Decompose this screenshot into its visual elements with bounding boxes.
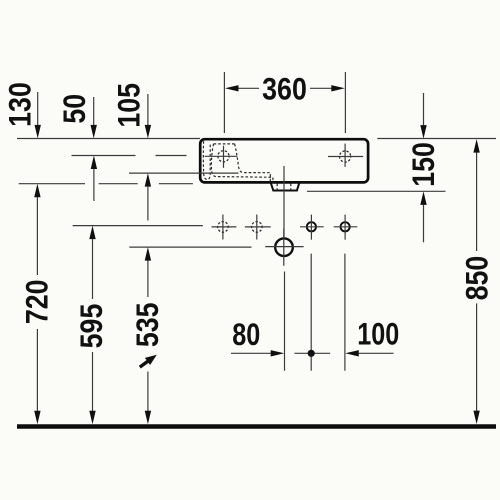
130 reference line (basin underside level) bbox=[19, 183, 193, 185]
mounting direction arrow (north-east) bbox=[137, 351, 159, 370]
hole C extension line down bbox=[310, 254, 312, 371]
wall top reference line bbox=[17, 138, 496, 140]
hole C crosshair bbox=[300, 215, 324, 240]
svg-text:150: 150 bbox=[407, 142, 441, 187]
150 reference line bbox=[307, 190, 446, 192]
dim 535 arrow down to floor bbox=[147, 372, 149, 413]
dim 595 arrow down to floor bbox=[92, 352, 94, 412]
svg-text:850: 850 bbox=[461, 256, 495, 301]
mounting hole D solid bbox=[341, 222, 350, 231]
washbasin outline bbox=[200, 139, 368, 182]
drain extension line down bbox=[284, 272, 286, 371]
dim 80 pointer bbox=[231, 352, 271, 354]
595 reference line bbox=[73, 225, 203, 227]
svg-text:50: 50 bbox=[58, 94, 92, 124]
reference dot bbox=[308, 350, 315, 357]
535 reference line bbox=[129, 246, 251, 248]
svg-text:360: 360 bbox=[262, 72, 307, 106]
bowl outline dashed top bbox=[214, 143, 235, 145]
svg-text:130: 130 bbox=[3, 82, 37, 127]
hole D crosshair bbox=[334, 215, 358, 240]
floor line bbox=[17, 424, 496, 429]
drain centerline vertical bbox=[283, 166, 285, 266]
hole D extension line down bbox=[344, 254, 346, 371]
faucet hole right crosshair bbox=[328, 144, 363, 167]
dim 130 arrow down bbox=[37, 92, 39, 126]
dim 105 arrow up at line bbox=[145, 173, 151, 187]
dim 100 pointer bbox=[345, 350, 359, 356]
basin front wall section (dashed U) bbox=[203, 141, 210, 179]
dim 720 arrow down to floor bbox=[36, 329, 38, 412]
mounting hole A dashed bbox=[218, 222, 229, 233]
svg-text:535: 535 bbox=[131, 302, 165, 347]
faucet hole left crosshair bbox=[205, 146, 238, 168]
mounting hole C solid bbox=[307, 222, 316, 231]
svg-text:80: 80 bbox=[232, 317, 260, 352]
hole B crosshair bbox=[245, 215, 271, 240]
shared reference segment with dot bbox=[294, 352, 330, 354]
dim 535 arrow up bbox=[145, 247, 151, 261]
dim 720 arrow up bbox=[34, 184, 40, 198]
dim 150 arrow down bbox=[423, 93, 425, 126]
faucet hole right (dashed circle) bbox=[340, 151, 351, 162]
dim 50 arrow down bbox=[93, 97, 95, 126]
mounting hole B dashed bbox=[251, 222, 262, 233]
dim 105 arrow down bbox=[147, 94, 149, 126]
bowl right wall + shelf dashed bbox=[235, 144, 271, 183]
dim 595 arrow up bbox=[89, 226, 95, 240]
bowl left wall + bottom dashed bbox=[211, 144, 273, 183]
drain spigot tab bbox=[271, 183, 299, 190]
drain crosshair horizontal bbox=[265, 246, 303, 248]
dim 850 arrow down to floor bbox=[476, 303, 478, 412]
drain hole circle bbox=[275, 238, 293, 256]
dim 360 arrowheads bbox=[225, 85, 239, 91]
faucet hole left (dashed circle) bbox=[218, 151, 229, 162]
svg-text:720: 720 bbox=[20, 279, 54, 324]
dim 360 extension lines bbox=[224, 72, 345, 133]
50 reference line bbox=[72, 155, 187, 157]
svg-text:105: 105 bbox=[112, 83, 146, 128]
drain pipe dashes in tab bbox=[276, 184, 278, 191]
105 reference line bbox=[129, 172, 239, 174]
dim 50 arrow up at line bbox=[91, 156, 97, 170]
dim 850 arrow up bbox=[473, 139, 479, 153]
svg-text:595: 595 bbox=[75, 304, 109, 349]
hole A crosshair bbox=[212, 215, 237, 240]
svg-text:100: 100 bbox=[357, 317, 399, 352]
dim 360 line bbox=[236, 87, 334, 89]
dim 150 arrow up at line bbox=[420, 191, 426, 205]
